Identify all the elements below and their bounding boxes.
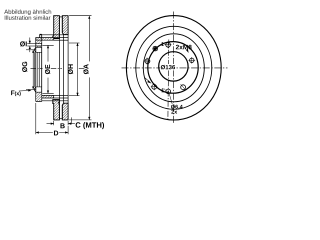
front view friction inner circle: [136, 26, 212, 109]
section: plate hatched sliver between pin and bolt hole: [36, 46, 42, 47]
label 1 top: [161, 42, 164, 46]
section: countersink lower bolt hole: [34, 87, 35, 92]
bolt hole 4 lower-right: [181, 84, 187, 90]
label 1 bottom: [162, 88, 165, 92]
note: Abbildung ähnlich: [4, 9, 51, 15]
section: bolt hole window edges: [36, 47, 42, 92]
section: plate hatched band above pin hole: [36, 40, 42, 44]
front view hole circle: [148, 42, 198, 94]
label Ø6,4 2x with leader: [169, 94, 172, 104]
section: outboard cheek top cut: [53, 16, 60, 39]
section: inboard cheek bottom cut: [62, 103, 68, 120]
section: plate hatched lower band: [36, 92, 42, 101]
front view centerline vertical: [173, 12, 175, 125]
note: Illustration similar: [5, 15, 51, 19]
section: band lines seen through vent: [54, 35, 68, 104]
dimension ØG: [26, 50, 36, 90]
section: inboard cheek top cut: [62, 16, 68, 35]
front view pin-hole centerline: [167, 40, 170, 120]
section: vent channel inner silhouette bottom: [40, 100, 68, 102]
section: hat bore edge top: [42, 44, 53, 46]
left view centerline: [31, 68, 85, 70]
section: seen-through edge lines in plate window: [34, 52, 39, 87]
dimension C (MTH): [76, 122, 104, 129]
bolt hole 1 upper-left: [153, 46, 158, 51]
section: hat cylindrical wall top: [36, 38, 54, 41]
section: mounting face plate outline: [36, 34, 42, 101]
front view hat outer circle: [143, 34, 204, 102]
label Ø136: [160, 64, 176, 70]
section: vent gap outline: [58, 17, 62, 119]
front view centerline horizontal: [122, 67, 228, 69]
front view center hole: [159, 52, 188, 81]
section: vent channel inner silhouette top: [40, 34, 68, 36]
dimension D: [36, 103, 68, 134]
pin hole bottom: [166, 89, 171, 94]
dimension ØE: [47, 45, 49, 93]
dimension ØH: [69, 43, 80, 96]
dimension ØI: [27, 38, 36, 53]
M8 hole right: [189, 57, 196, 64]
front view outer circle: [126, 16, 221, 120]
section: hat bore edge bottom: [42, 92, 53, 94]
section: hat cylindrical wall bottom: [36, 95, 54, 98]
section: countersink upper bolt hole: [34, 47, 35, 52]
pin hole top: [165, 41, 172, 48]
bolt hole 2 left: [144, 58, 151, 65]
leader arrow to bolt hole 3: [145, 78, 150, 82]
section: pin hole edges in plate: [36, 44, 42, 46]
dimension F(x) leader: [19, 90, 29, 93]
section: outboard cheek bottom cut: [53, 100, 60, 120]
dimension B: [47, 117, 75, 125]
label 2xM8 with leader arrow: [176, 45, 192, 50]
bolt hole 3 lower-left: [151, 83, 158, 90]
dimension ØA: [69, 16, 91, 120]
